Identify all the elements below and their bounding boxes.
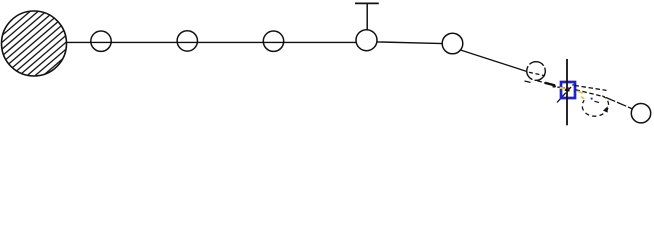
center dash in node N bbox=[565, 89, 570, 92]
node J6 (dashed joint circle) bbox=[527, 62, 546, 81]
node J3 (pin joint circle) bbox=[263, 31, 283, 51]
crosshair vertical bbox=[566, 59, 568, 125]
dashed line B (node N to lower right) bbox=[576, 90, 605, 97]
dashed diagonal through node N bbox=[557, 84, 574, 102]
support T post bbox=[366, 4, 368, 30]
ground wheel / crank hub (hatched circle) bbox=[0, 0, 207, 110]
wire link L3 (J5 down to J6) bbox=[460, 50, 528, 72]
dashed line D1 through J6 bbox=[529, 72, 545, 76]
dashed line A (node N to right) bbox=[575, 85, 607, 90]
node J2 (pin joint circle) bbox=[177, 31, 197, 51]
node J1 (pin joint circle) bbox=[91, 31, 111, 51]
node J5 (pin joint circle) bbox=[442, 33, 463, 54]
node J4 (fixed pivot circle) bbox=[356, 30, 377, 51]
thick dash on D2 bbox=[545, 83, 555, 86]
dashed link to J7 bbox=[606, 98, 632, 109]
yellow dash start of line B bbox=[578, 91, 584, 93]
yellow dash lower bbox=[581, 97, 584, 99]
extra dash on trajectory bbox=[595, 101, 600, 102]
support T bar bbox=[355, 2, 379, 4]
dashed horizontal through square bbox=[553, 87, 571, 89]
selected node N (blue square) bbox=[561, 82, 575, 98]
blue dot on line B bbox=[591, 98, 593, 100]
dashed line D2 (J6 to node N) bbox=[537, 81, 567, 90]
node J7 (end joint circle) bbox=[631, 104, 650, 123]
dashed trajectory arc bbox=[582, 96, 608, 116]
wire link L1 (main horizontal link) bbox=[66, 41, 357, 43]
dash below J6 bbox=[525, 81, 531, 82]
wire link L2 (J4 to J5) bbox=[377, 42, 443, 44]
arc arrowhead bbox=[603, 106, 608, 112]
yellow dash over square border bbox=[560, 87, 565, 90]
